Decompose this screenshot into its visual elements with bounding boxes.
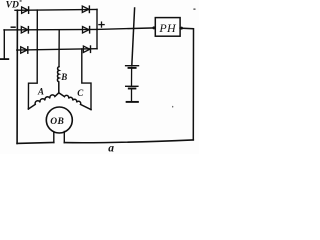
battery GB plates — [126, 66, 139, 102]
label plus — [99, 22, 104, 27]
svg-text:OB: OB — [50, 117, 64, 127]
speck mid right — [172, 106, 173, 108]
wire PH output right side down — [180, 28, 193, 140]
wire bottom bus right segment — [64, 140, 193, 143]
diode VD row2 right — [83, 27, 90, 33]
wire phase lead A — [28, 10, 37, 109]
svg-text:A: A — [37, 87, 44, 97]
diode VD row2 left — [21, 27, 28, 33]
wire positive output line — [97, 28, 155, 30]
field winding lead left — [53, 132, 55, 143]
diode VD row1 left — [22, 7, 29, 13]
field winding circle OB — [46, 107, 72, 133]
wire positive bus right vertical — [96, 9, 98, 48]
minus output terminal — [0, 30, 8, 59]
node dot PH right — [180, 27, 183, 30]
wire phase row 3 — [17, 49, 97, 50]
wire bottom bus left segment — [17, 142, 54, 145]
wire negative bus left vertical — [16, 10, 18, 143]
wire phase row 2 — [4, 28, 97, 31]
svg-text:PH: PH — [158, 21, 177, 35]
stator coil C — [59, 93, 91, 110]
diode VD row3 left — [21, 47, 28, 53]
wire phase lead C — [82, 49, 91, 110]
diode VD row1 right — [82, 6, 89, 12]
stator coil A — [28, 93, 58, 109]
label VD — [6, 0, 22, 11]
svg-text:a: a — [108, 143, 114, 154]
svg-text:C: C — [77, 88, 84, 98]
field winding lead right — [63, 132, 65, 143]
wire phase lead B — [58, 30, 60, 67]
regulator box PH — [155, 18, 180, 37]
battery stub wire — [132, 8, 135, 66]
stator coil B — [57, 67, 59, 93]
node dot PH left — [152, 26, 155, 29]
label minus — [11, 26, 15, 28]
speck top right — [193, 9, 195, 10]
diode VD row3 right — [83, 46, 90, 52]
svg-text:B: B — [60, 72, 67, 82]
wire phase row 1 — [15, 8, 97, 11]
svg-text:VD: VD — [6, 0, 19, 11]
